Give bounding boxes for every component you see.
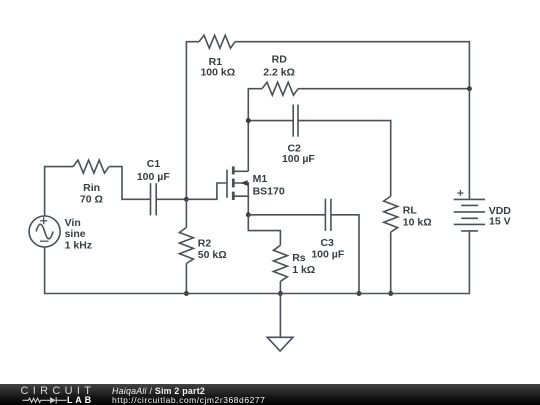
node: RD output joins VDD column [467,86,472,91]
wire: source node down and over to Rs [248,215,280,246]
CircuitLab logo text CIRCUIT [21,385,96,397]
svg-text:1 kΩ: 1 kΩ [292,264,315,276]
transistor M1 (BS170 NMOS) [227,166,285,200]
svg-text:Vin: Vin [65,217,81,229]
svg-text:15 V: 15 V [489,216,511,228]
resistor RL [384,196,432,232]
wire: C3 right side down to ground rail [331,215,359,294]
svg-text:70 Ω: 70 Ω [80,194,103,206]
battery VDD [454,89,512,231]
wire: source down to source node [247,196,249,215]
svg-text:M1: M1 [253,173,268,185]
svg-text:50 kΩ: 50 kΩ [198,249,227,261]
svg-text:2.2 kΩ: 2.2 kΩ [263,66,295,78]
resistor R2 [179,228,226,264]
wire: bottom ground rail [45,231,470,294]
wire: Rs bottom to ground rail [279,281,281,293]
resistor Rin [73,160,109,205]
credit line 1 [112,386,205,396]
capacitor C2 [282,105,315,166]
voltage source Vin [29,216,92,252]
resistor R1 [199,35,235,78]
node: drain / C2 junction [246,118,251,123]
CircuitLab logo text LAB [67,395,94,405]
wire: drain net from RD left down to MOSFET drain [248,89,262,172]
wire: Vin top to Rin [45,167,73,216]
svg-text:C1: C1 [147,158,161,170]
wire: RD right to VDD column [298,88,469,90]
node: C3 at ground rail [357,291,362,296]
svg-text:BS170: BS170 [253,186,285,198]
svg-text:1 kHz: 1 kHz [65,240,92,252]
credit line 2 [112,395,265,405]
wire: C2 right to RL top [298,121,391,197]
wire: source node to C3 [248,214,325,216]
wire: C2 left lead from drain node [248,120,293,122]
svg-text:100 µF: 100 µF [137,171,170,183]
svg-text:100 µF: 100 µF [311,249,344,261]
wire: C1 to gate node [156,198,186,200]
svg-text:Rs: Rs [292,252,306,264]
capacitor C1 [137,158,170,216]
ground [267,294,293,352]
wire: Rin to C1 [109,167,151,200]
svg-text:RD: RD [272,54,288,66]
svg-text:100 kΩ: 100 kΩ [200,67,235,79]
svg-text:10 kΩ: 10 kΩ [403,217,432,229]
node: source junction [246,212,251,217]
resistor RD [262,54,298,96]
wire: R2 leads [185,199,187,293]
capacitor C3 [311,199,344,261]
svg-text:Rin: Rin [83,182,100,194]
wire: RL bottom to ground rail [390,232,392,293]
svg-text:R2: R2 [198,237,212,249]
footer bar [0,384,540,405]
svg-text:100 µF: 100 µF [282,153,315,165]
node: ground junction [278,291,283,296]
svg-text:RL: RL [403,205,418,217]
node: RL at ground rail [388,291,393,296]
resistor Rs [273,245,315,281]
CircuitLab logo glyph (resistor + diode) [21,396,67,405]
wire: top net R1 row, left vertical, right vertical to VDD [186,42,469,200]
svg-text:C3: C3 [320,237,334,249]
svg-text:sine: sine [65,228,86,240]
node: R2 at ground rail [184,291,189,296]
wire: gate wire to MOSFET [186,183,226,199]
node: C1 / R1 / R2 / gate junction [184,197,189,202]
